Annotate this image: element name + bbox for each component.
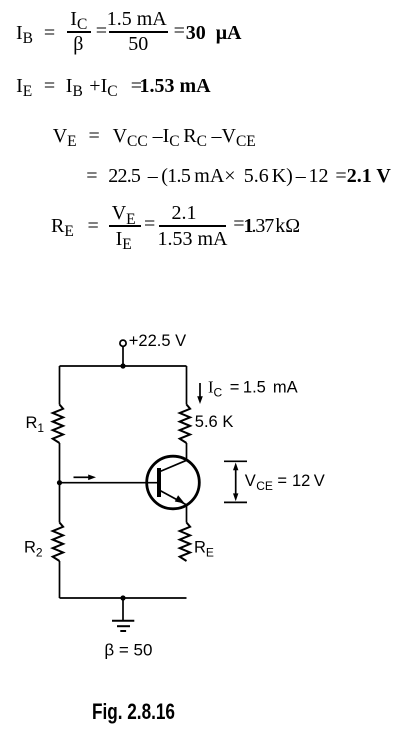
svg-text:RE: RE [194, 539, 214, 560]
node base junction [57, 480, 62, 485]
VCE annotation [224, 461, 247, 502]
base current arrow [74, 475, 97, 481]
svg-text:β = 50: β = 50 [104, 641, 152, 660]
svg-text:5.6 K: 5.6 K [195, 413, 234, 431]
svg-text:+22.5 V: +22.5 V [129, 332, 186, 350]
transistor Q1 [147, 456, 200, 509]
svg-text:R2: R2 [24, 539, 43, 560]
wire emitter [186, 505, 188, 523]
resistor R1 [53, 405, 63, 444]
wire top rail [60, 365, 187, 367]
wire left middle [59, 443, 61, 523]
junction ground node [120, 595, 125, 600]
caption Fig. 2.8.16 [92, 701, 175, 723]
wire right upper [186, 366, 188, 405]
svg-text:IC=1.5mA: IC=1.5mA [208, 378, 298, 400]
supply terminal circle [120, 340, 126, 346]
wire collector [186, 443, 188, 460]
wire left upper [59, 366, 61, 405]
wire bottom rail [60, 597, 187, 599]
wire left lower [59, 561, 61, 598]
wire supply stem [122, 347, 124, 366]
wire base [60, 482, 158, 484]
svg-text:R1: R1 [26, 414, 45, 435]
junction top node [120, 363, 125, 368]
svg-text:VCE=12V: VCE=12V [245, 472, 325, 493]
resistor RC 5.6K [180, 405, 190, 444]
ground [112, 598, 134, 631]
resistor RE [180, 523, 190, 562]
arrow IC [197, 383, 203, 404]
resistor R2 [53, 523, 63, 562]
